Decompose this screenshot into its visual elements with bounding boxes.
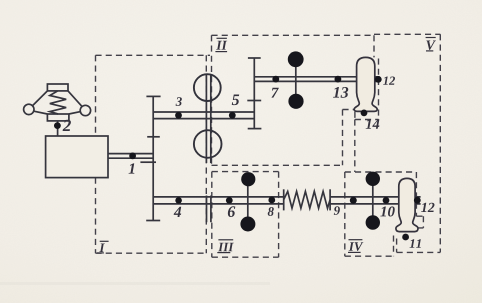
node 11 bbox=[402, 234, 409, 241]
underline I bbox=[97, 252, 104, 254]
underline III bbox=[217, 252, 230, 254]
end bar between shafts 3-5 and 7-13 bbox=[253, 58, 255, 129]
input link tick bottom bbox=[146, 220, 160, 222]
spring right bar (9) bbox=[329, 189, 331, 210]
coupling stem wire bbox=[57, 121, 59, 136]
gear 7 wheels (filled) bbox=[288, 51, 304, 67]
shaft stub at 12 upper bbox=[375, 77, 380, 82]
gear 10 wheels (filled) bbox=[366, 172, 380, 186]
coupling 2 lower plate bbox=[47, 114, 69, 121]
coupling 2 right pin bbox=[80, 105, 90, 115]
wheel upper circle bbox=[194, 74, 221, 101]
node 12 lower bbox=[414, 197, 421, 204]
label 7 bbox=[271, 88, 278, 98]
label 11 bbox=[410, 239, 421, 248]
coupling 2 left arm lower bbox=[34, 111, 48, 114]
vertical shaft lower stub (double line) bbox=[207, 196, 211, 223]
label 12 lower bbox=[421, 203, 434, 212]
overline IV bbox=[349, 239, 363, 241]
coupling 2 spring bbox=[50, 91, 66, 114]
input link tick upper-mid bbox=[147, 136, 160, 138]
spring between 8 and 9 bbox=[284, 191, 330, 208]
group frame II bbox=[212, 35, 375, 165]
label 5 bbox=[232, 95, 239, 106]
gear 10 spindle bbox=[372, 179, 374, 223]
end bar tick bottom bbox=[248, 128, 262, 130]
end bar tick top bbox=[248, 57, 261, 59]
node 13 bbox=[335, 76, 342, 83]
label 4 bbox=[174, 207, 182, 217]
label 6 bbox=[228, 206, 235, 217]
motor 1 (block) bbox=[46, 136, 108, 178]
gear 6 spindle bbox=[247, 179, 249, 224]
gear 6 wheels (filled) bbox=[241, 172, 255, 186]
input link tick lower-mid bbox=[140, 161, 156, 163]
coupling 2 left arm upper bbox=[33, 91, 48, 106]
coupling 2 right arm upper bbox=[68, 91, 82, 107]
paper smudge streak bbox=[0, 282, 270, 285]
node 5 bbox=[229, 112, 236, 119]
label 1 bbox=[129, 163, 135, 173]
label 12 upper bbox=[383, 77, 395, 85]
group frame IV bbox=[345, 172, 417, 256]
input link tick top bbox=[146, 95, 160, 97]
wheel lower circle bbox=[194, 130, 222, 158]
node 6 bbox=[226, 197, 233, 204]
node 9 bbox=[350, 197, 357, 204]
bottle unit 12-14 (upper) bbox=[354, 57, 377, 111]
node 12 upper bbox=[375, 76, 382, 83]
underline IV bbox=[348, 251, 361, 253]
label 9 bbox=[334, 206, 340, 215]
overline I bbox=[100, 240, 109, 242]
shaft 4-6-8 (double line) bbox=[153, 197, 284, 204]
node 14 bbox=[361, 110, 368, 117]
label group II bbox=[216, 41, 227, 50]
label 2 bbox=[63, 120, 71, 131]
vertical shaft of wheel pair (double line) bbox=[206, 74, 210, 163]
group frame III bbox=[212, 172, 279, 258]
node 4 bbox=[175, 197, 182, 204]
gear 7 spindle bbox=[295, 59, 297, 101]
group frame I bbox=[96, 55, 211, 253]
group frame V bbox=[355, 34, 441, 252]
bottle unit 11 (lower) bbox=[396, 178, 418, 231]
coupling 2 left pin bbox=[24, 104, 34, 114]
node 3 bbox=[175, 112, 182, 119]
label 13 bbox=[333, 87, 348, 98]
node 1 bbox=[129, 153, 136, 160]
label group IV bbox=[349, 242, 364, 251]
shaft 7-13 (double line) bbox=[254, 77, 356, 82]
shaft 3-5 (double line) bbox=[153, 112, 254, 119]
label group V bbox=[426, 41, 435, 50]
input vertical link bbox=[152, 96, 154, 220]
overline III bbox=[218, 239, 233, 241]
end bar tick middle bbox=[247, 100, 261, 102]
node 2 bbox=[54, 122, 61, 129]
label 14 bbox=[366, 119, 380, 129]
label group III bbox=[218, 243, 234, 252]
coupling 2 right arm lower bbox=[69, 112, 81, 114]
overline V bbox=[426, 37, 436, 39]
shaft 9-10 (double line) bbox=[330, 197, 399, 204]
node 7 bbox=[272, 76, 279, 83]
underline V bbox=[426, 50, 433, 52]
label 8 bbox=[268, 207, 274, 216]
overline II bbox=[217, 37, 227, 39]
underline II bbox=[215, 51, 227, 53]
label 10 bbox=[380, 206, 394, 216]
node 8 bbox=[268, 197, 275, 204]
label group I bbox=[99, 243, 105, 252]
shaft stub at 12 lower bbox=[415, 197, 421, 204]
spring left bar (8) bbox=[283, 189, 285, 210]
node 10 bbox=[383, 197, 390, 204]
coupling 2 upper plate bbox=[47, 84, 68, 91]
shaft 1 (motor output, double line) bbox=[108, 154, 153, 159]
label 3 bbox=[176, 97, 182, 106]
